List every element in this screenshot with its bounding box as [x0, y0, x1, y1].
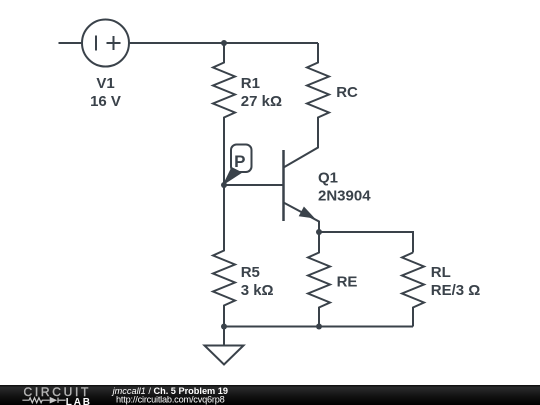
svg-text:R1: R1: [241, 75, 260, 92]
svg-text:V1: V1: [96, 75, 114, 92]
svg-text:P: P: [234, 152, 245, 171]
svg-text:RL: RL: [431, 264, 451, 281]
svg-text:LAB: LAB: [66, 397, 92, 405]
svg-text:RC: RC: [336, 84, 358, 101]
svg-text:27 kΩ: 27 kΩ: [241, 93, 282, 110]
svg-text:16 V: 16 V: [90, 93, 121, 110]
svg-text:http://circuitlab.com/cvq6rp8: http://circuitlab.com/cvq6rp8: [116, 395, 225, 405]
svg-text:RE/3 Ω: RE/3 Ω: [431, 282, 481, 299]
svg-text:RE: RE: [337, 273, 358, 290]
svg-text:2N3904: 2N3904: [318, 187, 371, 204]
svg-text:R5: R5: [241, 264, 260, 281]
svg-text:Q1: Q1: [318, 169, 338, 186]
svg-text:3 kΩ: 3 kΩ: [241, 282, 274, 299]
